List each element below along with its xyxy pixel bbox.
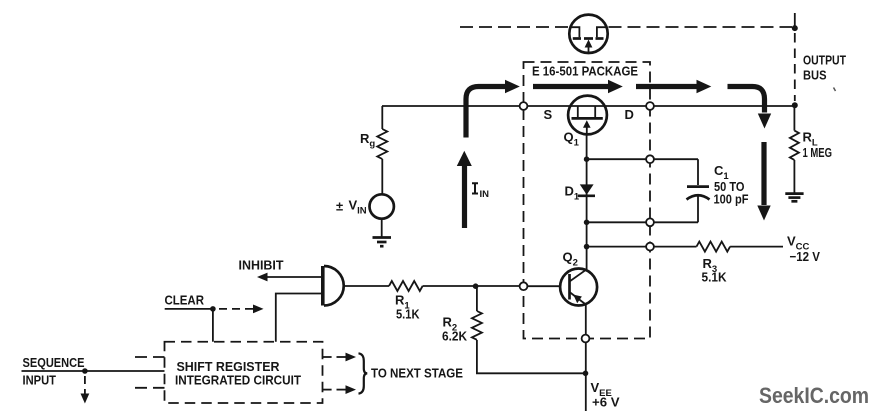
- svg-text:5.1K: 5.1K: [396, 307, 420, 322]
- svg-text:TO NEXT STAGE: TO NEXT STAGE: [371, 366, 463, 381]
- node package right crossing at y246 (open): [646, 243, 654, 251]
- node package right crossing at y159 (open): [646, 155, 654, 163]
- ground (VIN): [373, 238, 392, 247]
- wire sequence input (solid): [22, 370, 165, 372]
- ground (RL): [785, 194, 803, 202]
- svg-text:5.1K: 5.1K: [702, 270, 728, 285]
- wire CLEAR: [165, 308, 213, 310]
- node package bottom crossing emitter (open): [582, 335, 590, 343]
- wire output bus dashed vertical: [794, 33, 796, 101]
- wire junction down to R2: [476, 286, 478, 311]
- arrow to next stage upper: [323, 353, 357, 362]
- svg-text:6.2K: 6.2K: [442, 329, 468, 344]
- wire main horizontal line: [382, 105, 795, 107]
- label IIN: [472, 183, 489, 200]
- transistor Q2 (PNP): [560, 269, 597, 306]
- svg-text:+6 V: +6 V: [592, 395, 620, 410]
- wire shift register input dashed bottom: [135, 387, 165, 389]
- shift register box (dashed): [165, 342, 323, 403]
- resistor RL: [790, 105, 799, 193]
- node collector junction: [584, 244, 590, 250]
- wire gate output to R1: [344, 285, 389, 287]
- current arrow IIN (up): [457, 151, 472, 228]
- transistor Q1 MOSFET: [568, 96, 607, 135]
- svg-text:S: S: [544, 107, 553, 122]
- current arrow curving down to output bus: [728, 87, 772, 129]
- resistor R1: [389, 281, 423, 291]
- node D1 top junction: [584, 156, 590, 162]
- resistor R2: [472, 311, 482, 340]
- resistor Rg: [377, 106, 387, 195]
- transistor top MOSFET (unlabeled): [569, 15, 607, 53]
- resistor R3: [697, 242, 731, 252]
- svg-text:±: ±: [336, 199, 343, 214]
- wire Q2 emitter down to VEE: [585, 305, 587, 412]
- arrow INHIBIT (points left out of gate): [257, 273, 323, 282]
- arrow to next stage lower: [323, 385, 357, 394]
- node output bus main junction: [792, 102, 798, 108]
- svg-text:D: D: [625, 107, 634, 122]
- node VEE junction: [583, 371, 589, 377]
- current arrow exiting package: [636, 80, 711, 93]
- node R1/R2 junction: [473, 283, 479, 289]
- wire R1 to Q2 base: [423, 285, 524, 287]
- wire shift register input dashed top: [135, 356, 165, 358]
- svg-text:1 MEG: 1 MEG: [803, 145, 833, 160]
- brace to next stage: [359, 353, 368, 393]
- current arrow down along output bus: [757, 142, 770, 221]
- wire CLEAR junction down to shift register: [212, 309, 214, 342]
- svg-text:INHIBIT: INHIBIT: [239, 258, 284, 273]
- wire Q2 base from package edge: [524, 285, 561, 287]
- capacitor C1: [687, 159, 710, 222]
- svg-text:SEQUENCE: SEQUENCE: [23, 355, 85, 370]
- diode D1: [578, 184, 595, 195]
- node package left crossing base (open): [520, 282, 528, 290]
- node CLEAR junction: [210, 306, 216, 312]
- wire top dashed bus line left of top transistor: [460, 26, 569, 28]
- wire top dashed bus line right of top transistor: [609, 26, 793, 28]
- wire R2 bottom to VEE junction: [477, 340, 586, 373]
- svg-text:INTEGRATED CIRCUIT: INTEGRATED CIRCUIT: [175, 373, 301, 388]
- source VIN: [370, 194, 394, 218]
- arrow CLEAR dashed (points right): [219, 305, 264, 314]
- wire D1 top junction to C1: [587, 158, 698, 160]
- wire gate lower input from shift register: [276, 294, 323, 342]
- wire VIN to ground: [381, 219, 383, 237]
- svg-text:OUTPUT: OUTPUT: [803, 53, 846, 68]
- node S terminal (open): [520, 102, 528, 110]
- svg-text:E 16-501 PACKAGE: E 16-501 PACKAGE: [532, 64, 638, 79]
- svg-text:100 pF: 100 pF: [714, 192, 749, 207]
- gate (inhibit gate): [323, 266, 344, 306]
- package E16-501 dashed outline: [524, 62, 651, 339]
- svg-text:−12 V: −12 V: [790, 249, 821, 264]
- wire Q1 substrate / D1 / Q2 collector vertical: [586, 134, 588, 270]
- node D-side package crossing (open): [646, 102, 654, 110]
- wire D1 bottom junction to C1 bottom: [587, 221, 698, 223]
- svg-text:IN: IN: [480, 189, 490, 200]
- svg-text:INPUT: INPUT: [23, 373, 57, 388]
- svg-text:BUS: BUS: [803, 68, 827, 83]
- wire collector junction to R3: [587, 246, 697, 248]
- svg-text:SeekIC.com: SeekIC.com: [759, 383, 869, 408]
- node output bus top junction: [792, 13, 798, 31]
- arrow sequence junction dashed down: [81, 376, 90, 404]
- svg-text:CLEAR: CLEAR: [165, 293, 205, 308]
- speck mark near output bus: [834, 88, 836, 92]
- node D1 bottom junction: [584, 220, 590, 226]
- current arrow curved into package: [466, 80, 520, 138]
- node package right crossing at y222 (open): [646, 218, 654, 226]
- current arrow inside package: [533, 80, 623, 93]
- wire R3 to VCC: [730, 246, 783, 248]
- node sequence junction: [82, 368, 88, 374]
